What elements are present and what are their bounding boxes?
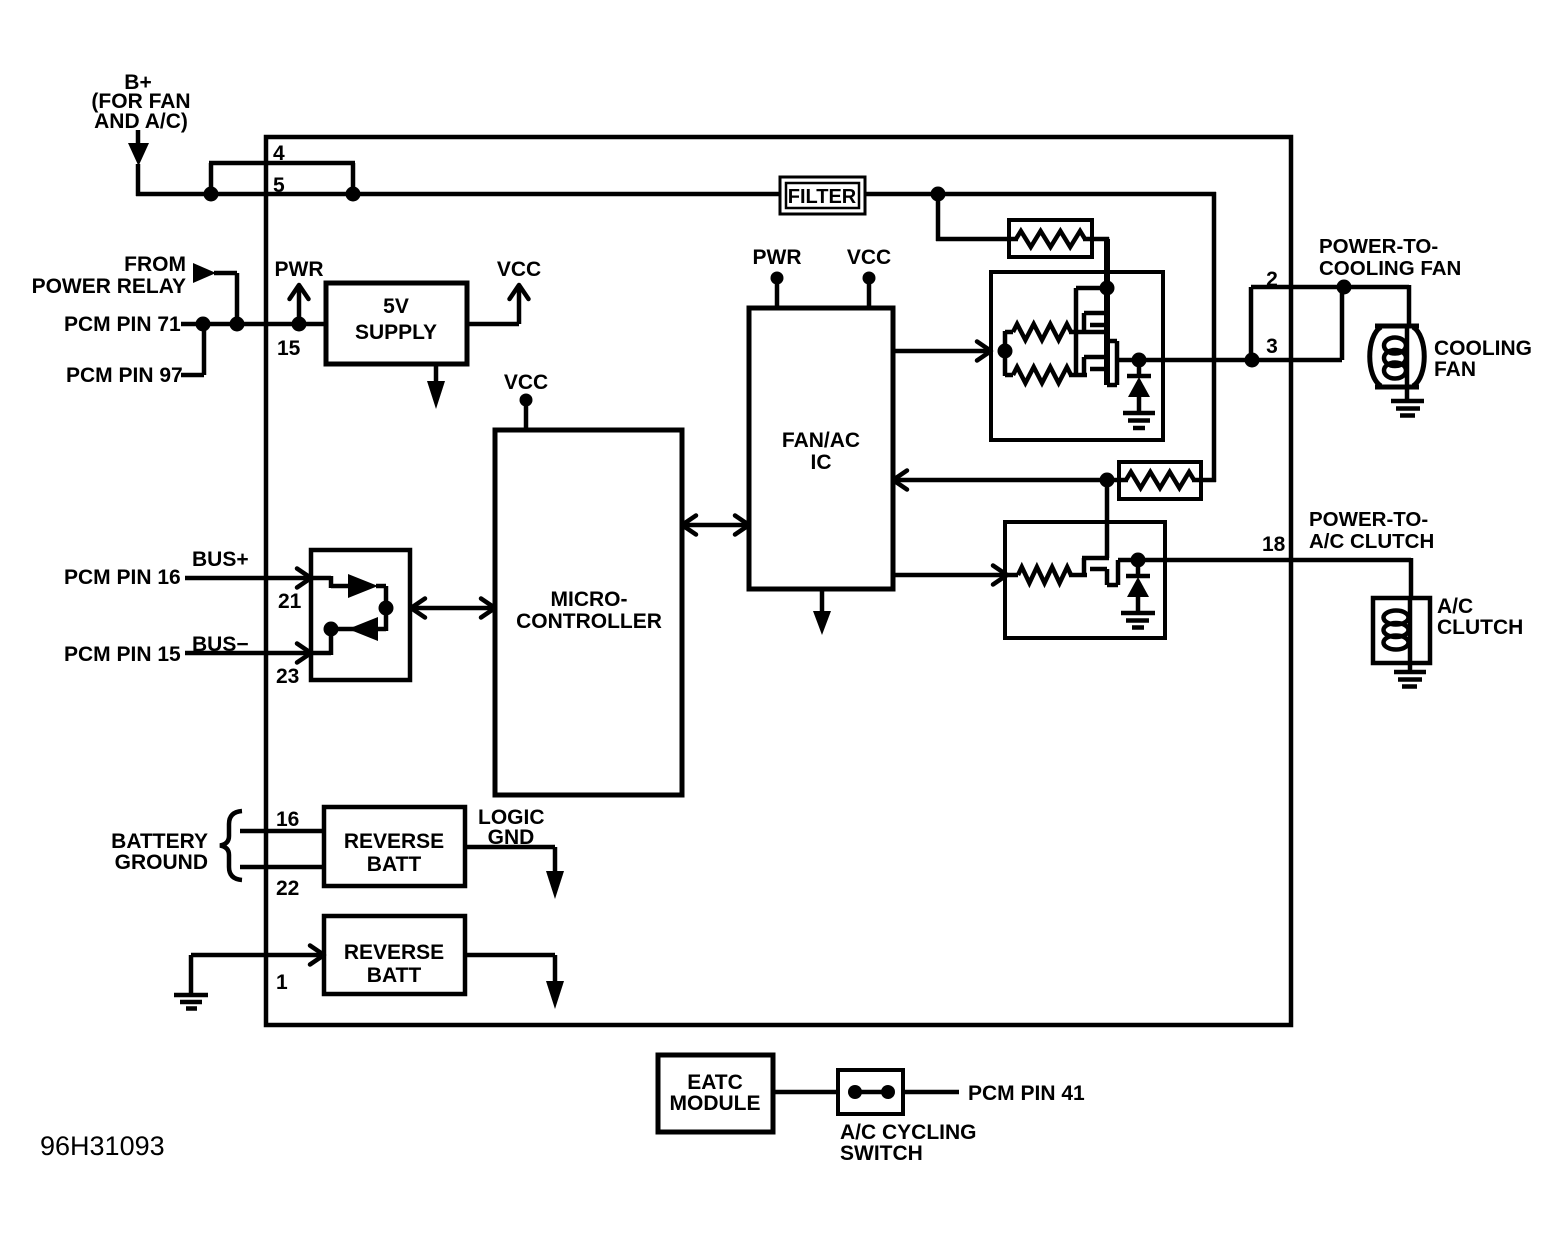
buffer A (transmit): [348, 574, 378, 598]
svg-text:MODULE: MODULE: [670, 1092, 761, 1115]
wire down to fan: [1407, 285, 1412, 328]
wire gate branch: [1003, 331, 1008, 376]
junction PWR tap: [292, 317, 307, 332]
svg-text:BUS+: BUS+: [192, 548, 249, 571]
wire PCM71 to 5V supply: [181, 322, 326, 327]
wire reverse batt 2 out: [465, 953, 555, 958]
wire pin4 loop top: [209, 161, 355, 166]
svg-text:CLUTCH: CLUTCH: [1437, 616, 1523, 639]
svg-text:21: 21: [278, 590, 302, 613]
svg-text:EATC: EATC: [687, 1071, 743, 1094]
arrowhead upper driver input: [977, 342, 991, 361]
wire bus drop right: [1212, 192, 1217, 482]
svg-text:16: 16: [276, 808, 299, 831]
svg-text:2: 2: [1266, 268, 1278, 291]
svg-text:PWR: PWR: [753, 246, 802, 269]
svg-text:FILTER: FILTER: [788, 186, 857, 208]
svg-text:5V: 5V: [383, 295, 409, 318]
wire battery ground pin 22: [240, 865, 324, 870]
svg-text:REVERSE: REVERSE: [344, 941, 444, 964]
svg-text:PWR: PWR: [275, 258, 324, 281]
logic gnd arrow: [546, 871, 564, 899]
wire battery ground pin 16: [240, 829, 324, 834]
junction pin 2 out: [1337, 280, 1352, 295]
svg-text:PCM PIN 15: PCM PIN 15: [64, 643, 181, 666]
junction R2 node: [1100, 473, 1115, 488]
filter block: [780, 177, 865, 214]
junction B+ pin5 left: [204, 187, 219, 202]
wire IC to upper driver gate: [893, 349, 991, 354]
wire xcvr lower: [331, 627, 386, 632]
svg-text:A/C CYCLING: A/C CYCLING: [840, 1121, 977, 1144]
svg-text:PCM PIN 41: PCM PIN 41: [968, 1082, 1085, 1105]
svg-text:15: 15: [277, 337, 301, 360]
svg-text:PCM PIN 97: PCM PIN 97: [66, 364, 183, 387]
resistor R1 (gate feed upper driver): [1009, 220, 1092, 257]
block REVERSE BATT protection 2: [324, 916, 465, 994]
wire IC to lower driver gate: [893, 573, 1007, 578]
block 5V SUPPLY: [326, 283, 467, 364]
resistor R3 (upper gate): [1013, 324, 1071, 340]
diode D2 (flyback, clutch): [1136, 560, 1141, 576]
svg-text:GROUND: GROUND: [115, 851, 208, 874]
svg-text:COOLING: COOLING: [1434, 337, 1532, 360]
svg-text:MICRO-: MICRO-: [551, 588, 628, 611]
svg-text:3: 3: [1266, 335, 1278, 358]
arrowhead BUS+ pin 21: [297, 569, 311, 588]
svg-text:SUPPLY: SUPPLY: [355, 321, 437, 344]
svg-text:POWER RELAY: POWER RELAY: [32, 275, 186, 298]
wire pin4 loop right: [351, 163, 356, 194]
block FAN/AC IC U1: [749, 308, 893, 589]
svg-text:FAN/AC: FAN/AC: [782, 429, 860, 452]
svg-text:23: 23: [276, 665, 299, 688]
junction pin71/pin97: [196, 317, 211, 332]
resistor R4 (lower gate): [1013, 367, 1071, 383]
wire BUS- in: [185, 651, 311, 656]
wire R1 to FET drain: [1083, 237, 1109, 242]
wire fan output pin 3: [1117, 358, 1342, 363]
wire xcvr in upper: [309, 576, 331, 581]
junction flyback diode D1 tap: [1132, 353, 1147, 368]
svg-text:96H31093: 96H31093: [40, 1131, 165, 1161]
wire xcvr right leg: [384, 586, 389, 631]
junction pin 3: [1245, 353, 1260, 368]
ground (fan): [1391, 399, 1424, 404]
diode D1 (flyback, fan): [1137, 360, 1142, 376]
svg-text:VCC: VCC: [847, 246, 891, 269]
wire junction to R1: [936, 194, 941, 241]
svg-text:BATTERY: BATTERY: [111, 830, 208, 853]
power relay feed arrow: [193, 263, 216, 283]
wire switch to PCM PIN 41: [903, 1090, 959, 1095]
svg-text:FROM: FROM: [124, 253, 186, 276]
svg-text:FAN: FAN: [1434, 358, 1476, 381]
ground (D2): [1121, 611, 1155, 616]
coil L1 A/C clutch: [1373, 598, 1430, 663]
wire B+ bus to FILTER: [136, 192, 780, 197]
block bus transceiver U3: [311, 550, 410, 680]
ground (clutch): [1394, 670, 1426, 675]
wire bus to R2: [1192, 478, 1216, 483]
ground (pin 1 input): [189, 955, 194, 995]
transistor Q1 (upper FET): [1104, 239, 1110, 385]
svg-text:BATT: BATT: [367, 964, 422, 987]
junction gate splitter: [998, 344, 1013, 359]
arrowhead lower driver input: [993, 566, 1007, 585]
svg-text:4: 4: [273, 142, 285, 165]
wire down to lower FET drain: [1105, 480, 1110, 558]
svg-text:A/C: A/C: [1437, 595, 1473, 618]
arrowhead BUS- pin 23: [297, 644, 311, 663]
wire FILTER output bus: [865, 192, 1216, 197]
svg-text:VCC: VCC: [497, 258, 541, 281]
svg-text:PCM PIN 71: PCM PIN 71: [64, 313, 181, 336]
arrowhead into FAN/AC IC: [893, 471, 907, 490]
wire logic gnd: [465, 845, 555, 850]
svg-text:REVERSE: REVERSE: [344, 830, 444, 853]
5V supply ground arrow: [434, 364, 439, 382]
svg-text:CONTROLLER: CONTROLLER: [516, 610, 662, 633]
wire ground to pin 1: [191, 953, 324, 958]
module outline box: [266, 137, 1291, 1025]
wire micro to FAN/AC IC data: [682, 523, 749, 528]
wire PCM97: [181, 373, 204, 378]
svg-text:POWER-TO-: POWER-TO-: [1319, 235, 1438, 258]
wire source rail: [1115, 341, 1120, 385]
buffer B (receive): [348, 617, 378, 641]
svg-text:A/C CLUTCH: A/C CLUTCH: [1309, 530, 1434, 553]
ground (D1): [1123, 411, 1155, 416]
wire xcvr to micro data: [411, 606, 495, 611]
resistor R2 (feedback to FAN/AC IC): [1119, 462, 1201, 499]
junction relay feed: [230, 317, 245, 332]
junction Q1 drain: [1100, 281, 1115, 296]
block EATC MODULE: [658, 1055, 773, 1132]
junction B+ pin5 right: [346, 187, 361, 202]
junction xcvr out: [379, 601, 394, 616]
svg-text:VCC: VCC: [504, 371, 548, 394]
transistor Q2 (lower FET): [1074, 332, 1079, 375]
arrowhead pin 1: [310, 946, 324, 965]
svg-text:IC: IC: [811, 451, 832, 474]
junction flyback diode D2 tap: [1131, 553, 1146, 568]
wire down to clutch: [1409, 558, 1414, 600]
wire pin4 loop left: [209, 163, 214, 194]
svg-text:22: 22: [276, 877, 299, 900]
svg-text:AND A/C): AND A/C): [94, 110, 188, 133]
block MICROCONTROLLER U2: [495, 430, 682, 795]
wire into R1: [936, 237, 1018, 242]
svg-text:18: 18: [1262, 533, 1286, 556]
block REVERSE BATT protection 1: [324, 807, 465, 886]
transistor Q3 (clutch FET): [1082, 556, 1109, 561]
block upper output driver (fan): [991, 272, 1163, 440]
wire R2 to FAN/AC IC: [893, 478, 1128, 483]
wire pin 2 to fan: [1251, 285, 1409, 290]
B+ feed arrow: [136, 130, 141, 144]
svg-text:COOLING FAN: COOLING FAN: [1319, 257, 1461, 280]
FAN/AC IC ground arrow: [820, 589, 825, 612]
battery ground brace: [220, 811, 242, 880]
svg-text:POWER-TO-: POWER-TO-: [1309, 508, 1428, 531]
junction xcvr lower left: [324, 622, 339, 637]
svg-text:SWITCH: SWITCH: [840, 1142, 923, 1165]
reverse batt 2 gnd arrow: [546, 981, 564, 1009]
svg-text:5: 5: [273, 174, 285, 197]
switch S1 A/C cycling: [838, 1070, 903, 1114]
resistor R5 (clutch gate): [1018, 567, 1071, 583]
junction filter node: [931, 187, 946, 202]
block lower output driver (A/C clutch): [1005, 522, 1165, 638]
svg-text:BATT: BATT: [367, 853, 422, 876]
wire BUS+ in: [185, 576, 311, 581]
motor M1 cooling fan: [1375, 324, 1419, 329]
svg-text:1: 1: [276, 971, 288, 994]
wire EATC to switch: [773, 1090, 838, 1095]
wire clutch output pin 18: [1118, 558, 1411, 563]
svg-text:PCM PIN 16: PCM PIN 16: [64, 566, 181, 589]
